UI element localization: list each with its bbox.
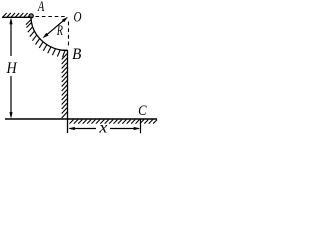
quarter-circle arc A-B: [31, 17, 68, 51]
svg-text:A: A: [37, 0, 45, 15]
dashed line A-O: [36, 16, 68, 18]
radius arrow R (double-headed): [43, 17, 69, 39]
dashed line O-B: [68, 22, 70, 47]
wall top cap at B: [62, 49, 68, 51]
label A: [37, 0, 45, 15]
label x: [98, 120, 107, 137]
svg-text:R: R: [56, 23, 63, 39]
ceiling hatching: [3, 13, 31, 17]
svg-text:O: O: [74, 10, 82, 26]
label O: [74, 10, 82, 26]
floor line: [5, 118, 157, 120]
pin A (small circle): [29, 14, 33, 18]
ceiling line: [2, 16, 30, 18]
wall hatching: [62, 54, 67, 119]
wall line B to floor (with extension below floor): [67, 50, 69, 133]
label C: [138, 103, 147, 119]
svg-text:C: C: [138, 103, 147, 119]
label B: [72, 46, 81, 63]
label R: [56, 23, 63, 39]
H dimension line with arrows: [9, 18, 12, 119]
svg-text:H: H: [6, 60, 18, 77]
arc hatching: [26, 20, 65, 58]
x dimension line with arrows: [68, 127, 140, 130]
extension line tick at C: [140, 120, 142, 134]
svg-text:x: x: [98, 120, 107, 137]
floor hatching: [70, 120, 158, 124]
label H: [6, 60, 18, 77]
svg-text:B: B: [72, 46, 81, 63]
